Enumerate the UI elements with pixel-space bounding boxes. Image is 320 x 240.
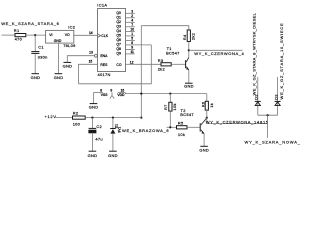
svg-text:Q2: Q2 <box>116 20 121 24</box>
capacitor C1 <box>31 45 47 60</box>
resistor R5 <box>177 121 188 138</box>
wire C2 to ground <box>91 133 93 151</box>
svg-text:1: 1 <box>131 32 133 36</box>
op-amp IC1A 4017N box <box>97 3 125 78</box>
transistor T2 BC547 <box>180 108 207 134</box>
svg-text:WE_K_GZ_STARA_10_SWIECE: WE_K_GZ_STARA_10_SWIECE <box>279 23 284 100</box>
svg-text:CLK: CLK <box>101 34 108 38</box>
svg-text:BC547: BC547 <box>180 112 194 117</box>
svg-text:Q4: Q4 <box>116 29 121 33</box>
svg-text:WY_K_SZARA_NOWA_7: WY_K_SZARA_NOWA_7 <box>245 139 301 144</box>
ground IC2 <box>54 74 64 80</box>
svg-text:5: 5 <box>131 37 133 41</box>
svg-text:Q1: Q1 <box>116 16 121 20</box>
wire R4 top to +9V vertical <box>141 26 189 30</box>
op IC2 78L09 regulator box <box>46 24 76 48</box>
svg-text:R2: R2 <box>73 111 79 116</box>
svg-text:2: 2 <box>131 14 133 18</box>
svg-text:GND: GND <box>54 39 62 43</box>
svg-text:VO: VO <box>65 33 70 37</box>
svg-text:12: 12 <box>130 60 134 64</box>
svg-text:3: 3 <box>131 10 133 14</box>
pin names Q0..Q9 and CO <box>116 11 121 67</box>
wire R3 to T1 base <box>171 63 185 65</box>
pin VSS 8 <box>94 88 109 97</box>
svg-text:6: 6 <box>131 41 133 45</box>
svg-text:8: 8 <box>100 88 102 92</box>
pin ENA bubble <box>95 54 98 57</box>
wire D2 vertical <box>257 77 259 115</box>
svg-text:2k2: 2k2 <box>158 66 165 71</box>
wire +12V to R2 <box>56 117 73 119</box>
node junction R1/C1 <box>34 34 36 36</box>
pin VDD 16 <box>117 88 125 97</box>
svg-text:Q7: Q7 <box>116 43 121 47</box>
svg-text:9: 9 <box>110 89 112 93</box>
ground D1 <box>108 151 118 158</box>
svg-text:470: 470 <box>15 37 23 42</box>
wire R4 bottom to collector node <box>188 42 190 51</box>
clock triangle CLK <box>98 34 101 37</box>
svg-text:ENA: ENA <box>100 54 108 58</box>
pin stubs Q0..Q9 right side <box>126 13 135 54</box>
svg-text:100: 100 <box>73 121 81 126</box>
wire VDD to +9V wire B <box>125 93 207 94</box>
svg-text:330n: 330n <box>38 55 48 60</box>
svg-text:10k: 10k <box>178 132 185 137</box>
svg-text:RES: RES <box>100 63 108 67</box>
svg-text:11: 11 <box>130 50 134 54</box>
pin stub CO <box>126 63 136 65</box>
svg-text:IC1A: IC1A <box>97 3 107 8</box>
svg-text:D3: D3 <box>273 94 278 100</box>
svg-text:9V1: 9V1 <box>117 127 121 133</box>
svg-text:10k: 10k <box>172 103 177 110</box>
svg-text:CO: CO <box>116 63 121 67</box>
ground C2 <box>88 151 98 158</box>
resistor R4 <box>182 30 195 42</box>
wire CO to R3 <box>136 63 162 65</box>
wire R1 to IC2 VI <box>26 34 46 36</box>
svg-text:Q5: Q5 <box>116 34 121 38</box>
wire down to SZARA_NOWA label <box>267 115 269 138</box>
node collector T2 <box>206 117 208 119</box>
svg-text:78L09: 78L09 <box>63 43 75 48</box>
ground T2 <box>199 146 209 152</box>
resistor R1 <box>14 28 26 42</box>
node D1 tap <box>112 117 114 119</box>
pin numbers right side <box>130 10 134 55</box>
svg-text:GND: GND <box>108 153 118 158</box>
svg-text:GND: GND <box>54 75 64 80</box>
transistor T1 BC547 <box>166 46 189 70</box>
wire IC2 VO to CLK pin 14 <box>74 34 98 36</box>
wire collector node to label <box>207 118 268 124</box>
supply arrow +9V symbol <box>110 89 114 99</box>
svg-text:R1: R1 <box>14 28 20 33</box>
svg-text:GND: GND <box>63 64 73 69</box>
ground ENA <box>63 62 73 68</box>
resistor R3 <box>158 58 172 72</box>
svg-text:Q9: Q9 <box>116 52 121 56</box>
node C2 tap <box>91 117 93 119</box>
svg-text:2k2: 2k2 <box>190 33 195 40</box>
node R7 top <box>169 93 171 95</box>
diode D1 zener <box>110 124 121 134</box>
svg-text:Q0: Q0 <box>116 11 121 15</box>
svg-text:4017N: 4017N <box>98 72 111 77</box>
wire RES to net A <box>79 64 98 84</box>
svg-text:WE_K_GZ_STARA_8_WTRYSK_DIESEL: WE_K_GZ_STARA_8_WTRYSK_DIESEL <box>252 12 257 95</box>
svg-text:R6: R6 <box>201 101 206 107</box>
svg-text:WE_K_SZARA_STARA_6: WE_K_SZARA_STARA_6 <box>1 21 59 26</box>
svg-text:1k: 1k <box>209 103 214 108</box>
wire to capacitor C1 <box>34 35 36 51</box>
ground C1 <box>31 74 41 80</box>
svg-text:GND: GND <box>88 153 98 158</box>
wire +9V rail <box>85 117 141 119</box>
ground T1 <box>184 83 194 88</box>
svg-text:R7: R7 <box>163 104 168 110</box>
svg-text:Q8: Q8 <box>116 47 121 51</box>
svg-text:GND: GND <box>89 104 99 109</box>
node V1 on rail <box>140 117 142 119</box>
wire +9V vertical V1 <box>140 26 142 118</box>
svg-text:13: 13 <box>89 50 93 54</box>
svg-text:VSS: VSS <box>101 93 108 97</box>
wire WY_K_CZERWONA_4 stub <box>189 49 243 51</box>
resistor R6 <box>201 94 214 118</box>
svg-text:Q6: Q6 <box>116 38 121 42</box>
capacitor C2 electrolytic <box>89 124 103 142</box>
node collector T1 <box>188 49 190 51</box>
svg-text:Q3: Q3 <box>116 25 121 29</box>
svg-text:C1: C1 <box>38 45 44 50</box>
wire C2 down <box>91 118 93 128</box>
wire VSS to ground <box>93 93 95 104</box>
wire input to R1 <box>2 34 16 36</box>
svg-text:+12V: +12V <box>45 114 57 119</box>
diode D3 <box>275 101 281 105</box>
wire T1 emitter down to ground <box>188 70 190 83</box>
svg-text:WY_K_CZERWONA_4: WY_K_CZERWONA_4 <box>194 51 244 56</box>
svg-text:VDD: VDD <box>117 93 125 97</box>
svg-text:16: 16 <box>121 88 125 92</box>
svg-text:D2: D2 <box>253 94 258 100</box>
node diode join <box>267 114 269 116</box>
wire D3 vertical <box>277 77 279 115</box>
svg-text:47u: 47u <box>95 137 102 142</box>
svg-text:R5: R5 <box>178 121 184 126</box>
svg-text:9: 9 <box>131 46 133 50</box>
wire V2 down to net A <box>79 45 152 84</box>
wire D1 down <box>112 118 114 129</box>
svg-text:BC547: BC547 <box>166 51 180 56</box>
wire T1 collector up <box>188 50 190 57</box>
wire R5 to T2 base <box>187 126 200 128</box>
wire C1 to ground <box>34 54 36 74</box>
svg-text:WY_K_CZERWONA_14&15: WY_K_CZERWONA_14&15 <box>206 119 269 124</box>
wire Q7 to reset net <box>135 44 152 46</box>
svg-text:R4: R4 <box>182 34 187 40</box>
svg-text:GND: GND <box>184 84 194 89</box>
wire diode join <box>258 114 278 116</box>
svg-text:4: 4 <box>131 19 133 23</box>
svg-text:15: 15 <box>89 60 93 64</box>
svg-text:R3: R3 <box>158 58 164 63</box>
wire ENA to ground <box>67 56 94 63</box>
ground VSS <box>89 104 99 110</box>
svg-text:C2: C2 <box>96 124 102 129</box>
node wire B on V1 <box>140 93 142 95</box>
svg-text:GND: GND <box>199 147 209 152</box>
wire T2 emitter down to ground <box>203 134 205 146</box>
resistor R2 <box>73 111 86 127</box>
wire IC2 GND pin <box>57 43 59 73</box>
svg-text:VI: VI <box>49 33 52 37</box>
svg-text:GND: GND <box>31 75 41 80</box>
wire D1 to ground <box>112 134 114 151</box>
diode D2 <box>255 101 261 105</box>
svg-text:WE_K_BRAZOWA_6: WE_K_BRAZOWA_6 <box>122 128 169 133</box>
svg-text:14: 14 <box>89 31 93 35</box>
svg-text:7: 7 <box>131 23 133 27</box>
node R7 bottom <box>169 126 171 128</box>
svg-text:10: 10 <box>130 28 134 32</box>
wire BRAZOWA net <box>167 126 177 128</box>
svg-text:IC2: IC2 <box>68 24 75 29</box>
resistor R7 <box>163 94 177 128</box>
